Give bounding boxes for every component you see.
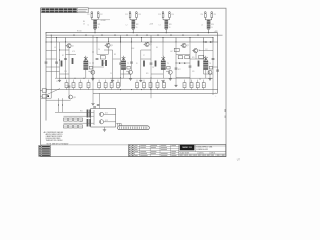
- title divider: [194, 145, 196, 152]
- resistor R32: [79, 83, 82, 88]
- wire box stub up: [150, 80, 152, 83]
- capacitor: [119, 62, 122, 64]
- node left a: [41, 90, 42, 91]
- svg-text:T3: T3: [167, 63, 169, 65]
- capacitor C12: [97, 12, 99, 14]
- wire vertical: [65, 42, 67, 78]
- wire osc 2: [123, 70, 125, 79]
- connector pin 6: [128, 127, 130, 129]
- wire box stub up: [80, 80, 82, 83]
- wire bus low: [46, 37, 213, 39]
- junction: [176, 63, 177, 64]
- junction feed row: [93, 78, 94, 79]
- svg-text:Q11: Q11: [73, 97, 76, 99]
- svg-text:MUSIC CO: MUSIC CO: [182, 147, 192, 149]
- wire: [46, 58, 57, 60]
- junction feed row: [84, 78, 85, 79]
- svg-text:C8: C8: [152, 67, 154, 69]
- wire drop: [189, 38, 191, 43]
- svg-text:470: 470: [192, 71, 195, 73]
- wire vertical: [112, 50, 114, 80]
- transistor Q13: [99, 120, 103, 124]
- resistor R37: [117, 83, 120, 88]
- wire connector stub c: [120, 123, 122, 125]
- tick component: [126, 34, 128, 36]
- transistor Q10: [91, 70, 95, 74]
- junction bus d: [51, 42, 52, 43]
- capacitor C21: [129, 12, 131, 14]
- title block outline: [129, 145, 226, 157]
- title cell mark: [202, 155, 205, 156]
- junction: [93, 63, 94, 64]
- wire vertical: [203, 42, 205, 60]
- title cell mark: [198, 155, 201, 156]
- wire cluster 3 drop: [165, 30, 167, 33]
- svg-text:C5: C5: [110, 73, 112, 75]
- svg-text:100K: 100K: [131, 48, 134, 50]
- capacitor amp a: [93, 106, 96, 108]
- wire box stub down: [197, 88, 199, 90]
- resistor R65: [69, 125, 73, 128]
- wire drop: [65, 38, 67, 43]
- trimmer R25 star: [122, 57, 126, 60]
- svg-text:C13: C13: [158, 14, 161, 16]
- wire connector stub b: [118, 123, 120, 125]
- junction c: [58, 105, 59, 106]
- capacitor: [212, 58, 215, 60]
- junction: [65, 42, 66, 43]
- wire box stub up: [98, 80, 100, 83]
- svg-text:SH 1/1: SH 1/1: [211, 153, 215, 155]
- svg-text:2.2K: 2.2K: [64, 71, 67, 73]
- wire vertical: [59, 42, 61, 80]
- capacitor C33: [164, 28, 168, 30]
- svg-text:+: +: [215, 92, 216, 94]
- wire box stub down: [105, 88, 107, 90]
- junction: [56, 37, 57, 38]
- wire vertical: [140, 50, 142, 80]
- resistor R40: [149, 83, 152, 88]
- inductor L42 body: [203, 61, 208, 70]
- wire: [55, 111, 94, 113]
- inductor L22 body: [121, 61, 126, 70]
- wire: [151, 73, 163, 75]
- svg-text:T1: T1: [89, 63, 91, 65]
- wire box stub up: [88, 80, 90, 83]
- wire box stub up: [136, 80, 138, 83]
- svg-text:Q13: Q13: [105, 120, 108, 122]
- wire: [97, 54, 108, 56]
- junction: [213, 37, 214, 38]
- wire osc 4: [205, 70, 207, 79]
- wire box stub up: [184, 80, 186, 83]
- svg-text:L4: L4: [201, 24, 203, 26]
- junction: [151, 42, 152, 43]
- title sub cells: [182, 154, 184, 156]
- svg-text:.047: .047: [170, 51, 173, 53]
- connector pin 10: [135, 127, 137, 129]
- trimmer R15 star: [84, 57, 88, 60]
- wire drop: [141, 38, 143, 43]
- wire cluster1 out: [99, 19, 110, 21]
- resistor R18: [178, 56, 182, 59]
- connector pin 11: [137, 127, 139, 129]
- wire: [104, 49, 113, 51]
- resistor: [143, 61, 145, 67]
- wire box stub up: [117, 80, 119, 83]
- diode CR1: [206, 41, 208, 43]
- junction: [190, 37, 191, 38]
- capacitor: [150, 62, 153, 64]
- ground: [161, 80, 164, 82]
- capacitor C13: [93, 28, 97, 30]
- inductor L11: [93, 25, 97, 28]
- parts list cell text: [129, 144, 130, 147]
- transistor Q3: [106, 43, 110, 47]
- wire: [46, 71, 60, 73]
- trimmer R45 star: [204, 57, 208, 60]
- svg-text:R11: R11: [146, 73, 149, 75]
- connector pin 9: [133, 127, 135, 129]
- resistor R31: [165, 20, 169, 24]
- resistor R11: [93, 20, 97, 24]
- border frame: [41, 8, 226, 156]
- wire stub b: [62, 98, 64, 112]
- wire row y42: [46, 41, 218, 43]
- svg-text:R4: R4: [83, 21, 85, 23]
- junction: [93, 52, 94, 53]
- component small square: [47, 95, 49, 97]
- wire vertical: [120, 35, 122, 87]
- wire cluster 4 drop: [208, 30, 210, 33]
- wire vertical: [189, 42, 191, 87]
- wire box stub down: [143, 88, 145, 90]
- resistor R64: [64, 125, 68, 128]
- wire drop: [131, 38, 133, 43]
- svg-text:C15: C15: [214, 14, 217, 16]
- wire drop: [96, 38, 98, 43]
- capacitor C43: [207, 28, 211, 30]
- connector pin 14: [142, 127, 144, 129]
- svg-text:L2: L2: [126, 24, 128, 26]
- wire cluster 2 tie: [129, 18, 131, 20]
- wire box stub down: [136, 88, 138, 90]
- junction row: [120, 89, 121, 90]
- svg-text:R1 100: R1 100: [77, 31, 82, 33]
- tick component: [85, 34, 87, 36]
- wire osc 1: [85, 70, 87, 79]
- connector pin 4: [124, 127, 126, 129]
- wire: [46, 50, 57, 52]
- svg-text:R17: R17: [178, 69, 181, 71]
- ground osc 4: [209, 74, 211, 78]
- resistor R41: [156, 83, 159, 88]
- capacitor: [189, 65, 192, 67]
- resistor bank R53: [87, 119, 89, 127]
- wire box stub down: [98, 88, 100, 90]
- title cell mark: [207, 155, 210, 156]
- inductor L12 body: [83, 61, 88, 70]
- fold mark a: [225, 109, 226, 112]
- connector pin 8: [131, 127, 133, 129]
- wire: [113, 58, 121, 60]
- resistor bank R52: [89, 110, 91, 118]
- capacitor C32: [169, 12, 171, 14]
- wire box stub down: [163, 88, 165, 90]
- node cluster 1: [94, 32, 95, 33]
- junction: [120, 37, 121, 38]
- wire diagonal: [46, 89, 60, 96]
- wire inner left rail: [45, 33, 47, 121]
- resistor R43: [183, 83, 186, 88]
- capacitor C41: [204, 12, 206, 14]
- wire: [60, 73, 70, 75]
- title sub row line 1: [179, 151, 226, 153]
- wire cluster 4 tie: [204, 18, 206, 20]
- resistor: [102, 60, 104, 66]
- wire: [110, 77, 124, 79]
- wire box stub down: [191, 88, 193, 90]
- svg-text:R23: R23: [169, 24, 172, 26]
- svg-text:C13: C13: [138, 14, 141, 16]
- connector pin 1: [119, 127, 121, 129]
- resistor R16: [199, 55, 204, 58]
- junction y42 a: [204, 42, 205, 43]
- title cell mark: [217, 155, 220, 156]
- wire box stub down: [184, 88, 186, 90]
- tick component: [197, 34, 199, 36]
- wire vertical: [92, 35, 94, 103]
- wire box stub down: [66, 88, 68, 90]
- title block header line: [179, 145, 226, 147]
- resistor R61: [69, 118, 73, 121]
- resistor R30: [65, 83, 68, 88]
- svg-text:C14: C14: [171, 14, 174, 16]
- svg-text:R15: R15: [192, 57, 195, 59]
- capacitor: [68, 85, 71, 87]
- svg-text:C14: C14: [200, 14, 203, 16]
- ground osc 1: [92, 74, 94, 78]
- wire inner left rail 2: [50, 35, 52, 98]
- title cell mark: [180, 155, 183, 156]
- title cell mark: [211, 155, 214, 156]
- wire box stub up: [66, 80, 68, 83]
- wire row lower1: [46, 89, 218, 91]
- inductor L41: [207, 25, 211, 28]
- resistor R19: [185, 56, 189, 59]
- node cluster 2: [133, 32, 134, 33]
- revision label box: [76, 8, 78, 13]
- sheet background: [0, 0, 250, 162]
- wire stub a: [58, 98, 60, 112]
- wire box stub up: [203, 80, 205, 83]
- svg-text:L3: L3: [159, 24, 161, 26]
- junction: [120, 42, 121, 43]
- resistor R42: [42, 95, 46, 98]
- resistor R46: [202, 83, 205, 88]
- wire vertical: [162, 42, 164, 57]
- resistor R34: [98, 83, 101, 88]
- svg-text:R2: R2: [62, 55, 64, 57]
- wire amp a: [104, 113, 116, 115]
- wire: [199, 50, 213, 52]
- node left b: [41, 96, 42, 97]
- wire left tail: [46, 99, 71, 101]
- svg-text:C11: C11: [87, 14, 90, 16]
- diode CR2: [210, 41, 212, 43]
- capacitor: [64, 58, 67, 60]
- wire bottom strip separator: [41, 144, 226, 146]
- wire: [141, 58, 151, 60]
- transistor Q30: [168, 70, 172, 74]
- wire vertical: [203, 60, 205, 74]
- wire amp feed: [98, 93, 100, 108]
- svg-text:.01: .01: [54, 47, 56, 49]
- svg-text:R51: R51: [80, 111, 83, 113]
- svg-text:R3: R3: [56, 63, 58, 65]
- wire cluster 1 drop: [94, 30, 96, 33]
- junction feed row: [75, 78, 76, 79]
- wire drop: [162, 38, 164, 43]
- inductor L21: [132, 25, 136, 28]
- resistor R66: [74, 125, 78, 128]
- wire row lower2: [93, 92, 218, 94]
- svg-text:R7: R7: [103, 63, 105, 65]
- svg-text:C12: C12: [205, 49, 208, 51]
- wire box stub down: [88, 88, 90, 90]
- capacitor C22: [136, 12, 138, 14]
- svg-text:T2: T2: [127, 63, 129, 65]
- title cell mark: [184, 155, 187, 156]
- capacitor: [55, 61, 58, 63]
- wire box stub up: [191, 80, 193, 83]
- wire vertical: [150, 35, 152, 98]
- notes text bar top-left: [41, 8, 88, 13]
- svg-text:DWG C: DWG C: [199, 153, 204, 155]
- wire: [66, 54, 77, 56]
- junction: [59, 50, 60, 51]
- amplifier outline U1: [91, 109, 116, 128]
- wire: [41, 97, 51, 99]
- resistor R33: [87, 83, 90, 88]
- wire osc 3: [162, 70, 164, 79]
- wire bus V+ top: [46, 32, 218, 34]
- junction row: [131, 89, 132, 90]
- resistor R38: [136, 83, 139, 88]
- junction: [120, 78, 121, 79]
- connector pin 15: [144, 127, 146, 129]
- wire box stub up: [157, 80, 159, 83]
- wire cluster 1 tie: [91, 18, 93, 20]
- junction d: [62, 105, 63, 106]
- junction row: [141, 89, 142, 90]
- wire box stub up: [105, 80, 107, 83]
- svg-text:UNLESS SPECIFIED: UNLESS SPECIFIED: [46, 138, 62, 140]
- resistor bank R54: [89, 119, 91, 127]
- svg-text:C12: C12: [125, 14, 128, 16]
- junction: [203, 42, 204, 43]
- resistor R41: [42, 89, 46, 92]
- connector pin 13: [140, 127, 142, 129]
- title cell mark: [193, 155, 196, 156]
- resistor R63: [79, 118, 83, 121]
- wire box stub up: [111, 80, 113, 83]
- wire box stub down: [73, 88, 75, 90]
- capacitor C31: [162, 12, 164, 14]
- title sub row line 2: [179, 153, 226, 155]
- svg-text:Q3: Q3: [111, 45, 113, 47]
- junction: [151, 42, 152, 43]
- wire connector stub a: [116, 123, 118, 125]
- capacitor: [130, 61, 133, 63]
- wire connector feed: [116, 122, 121, 124]
- resistor R35: [104, 83, 107, 88]
- resistor: [105, 60, 107, 66]
- wire: [121, 73, 132, 75]
- svg-text:L1: L1: [88, 24, 90, 26]
- wire: [213, 66, 218, 68]
- resistor: [72, 58, 74, 64]
- resistor: [61, 61, 63, 67]
- wire: [204, 73, 214, 75]
- capacitor: [216, 69, 219, 71]
- svg-text:4.7K: 4.7K: [72, 51, 75, 53]
- transistor Q12: [99, 112, 103, 116]
- junction bus a: [46, 32, 47, 33]
- resistor R62: [74, 118, 78, 121]
- resistor R41: [207, 20, 211, 24]
- junction: [93, 78, 94, 79]
- wire amp b: [104, 121, 116, 123]
- tick component: [73, 34, 75, 36]
- svg-text:SCHEM 60-0023: SCHEM 60-0023: [196, 149, 208, 151]
- junction: [97, 37, 98, 38]
- junction: [163, 37, 164, 38]
- wire vertical: [175, 42, 177, 85]
- title cell mark: [189, 155, 192, 156]
- tick component: [101, 34, 103, 36]
- inductor L31: [165, 25, 169, 28]
- ground: [111, 79, 114, 81]
- wire bus mid: [46, 34, 223, 36]
- ground osc 3: [169, 74, 171, 78]
- resistor bank R51: [87, 110, 89, 118]
- wire drop: [203, 38, 205, 43]
- tick component: [146, 34, 148, 36]
- junction: [59, 60, 60, 61]
- connector pin 2: [120, 127, 122, 129]
- ground: [58, 79, 61, 81]
- transistor Q11: [69, 95, 73, 99]
- resistor: [198, 61, 200, 67]
- resistor R31: [72, 83, 75, 88]
- title cell mark: [222, 155, 225, 156]
- wire grid mid: [64, 122, 94, 124]
- tick component: [114, 34, 116, 36]
- connector pin 12: [139, 127, 141, 129]
- svg-text:+: +: [215, 95, 216, 97]
- transistor Q9: [194, 49, 198, 53]
- tick component: [182, 34, 184, 36]
- svg-text:C4: C4: [98, 49, 100, 51]
- transistor Q20: [129, 70, 133, 74]
- wire box stub down: [117, 88, 119, 90]
- junction bus b: [51, 35, 52, 36]
- resistor R42: [163, 83, 166, 88]
- tick component: [170, 34, 172, 36]
- resistor side R46: [209, 66, 212, 69]
- junction y42 b: [211, 42, 212, 43]
